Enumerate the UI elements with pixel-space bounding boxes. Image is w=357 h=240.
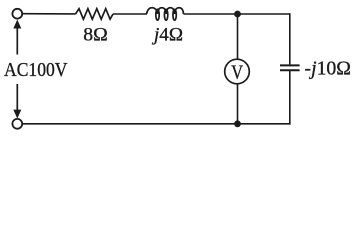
terminal top-left (12, 9, 22, 19)
resistor 8ohm (zigzag) (76, 9, 114, 20)
svg-text:-j10Ω: -j10Ω (305, 58, 352, 80)
wire voltmeter branch lower (237, 84, 239, 124)
wire voltmeter branch upper (237, 14, 239, 59)
svg-text:8Ω: 8Ω (83, 25, 108, 46)
capacitor -j10ohm (plates) (280, 65, 300, 70)
svg-text:j4Ω: j4Ω (151, 25, 183, 46)
svg-text:V: V (231, 62, 243, 83)
wire between resistor and inductor (113, 13, 147, 15)
bottom wire (22, 123, 290, 125)
arrow down (source annotation, lower) (13, 84, 21, 119)
terminal bottom-left (12, 119, 22, 129)
wire right edge down to capacitor (289, 13, 291, 64)
svg-text:AC100V: AC100V (4, 59, 68, 81)
node junction top (234, 11, 241, 18)
arrow up (source annotation, upper) (13, 20, 21, 55)
node junction bottom (234, 120, 241, 127)
inductor j4ohm (coil, 4 humps + 3 loops) (147, 8, 184, 21)
voltmeter V (circle) (225, 59, 250, 84)
wire capacitor to bottom (289, 71, 291, 125)
wire top-left (terminal to resistor) (22, 13, 75, 15)
wire inductor to right corner (184, 13, 291, 15)
